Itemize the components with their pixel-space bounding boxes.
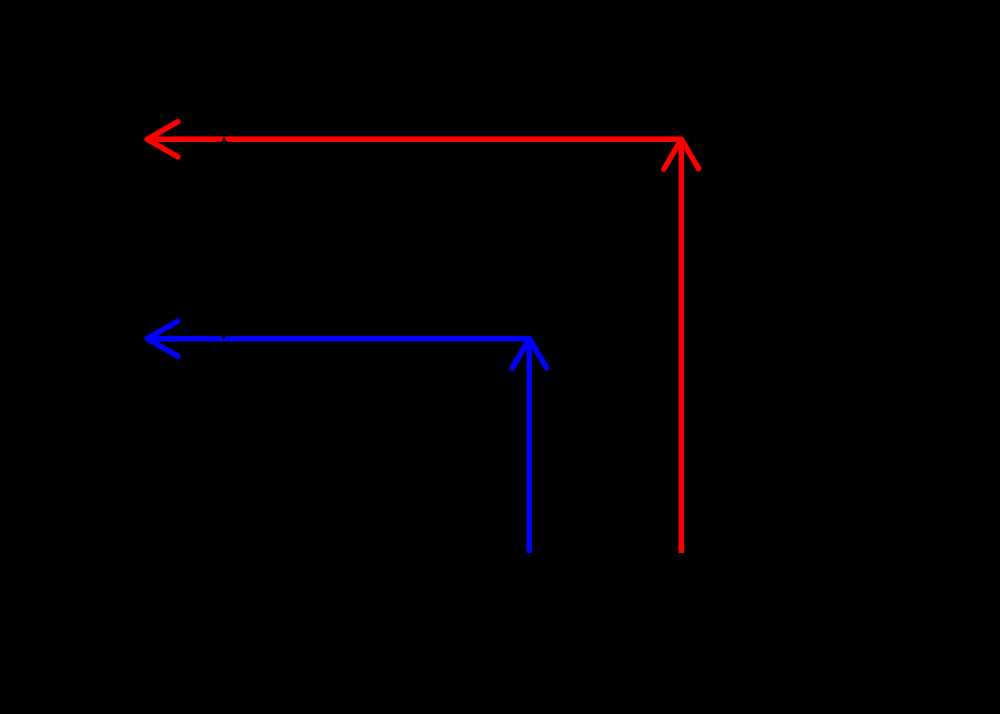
node blue left arrowhead: [147, 321, 178, 356]
wire red horizontal shaft: [150, 136, 681, 142]
wire blue horizontal shaft: [150, 336, 529, 342]
node A black glyph apex over red line: [221, 137, 228, 143]
node red left arrowhead: [147, 122, 178, 157]
node red up arrowhead: [664, 139, 699, 169]
node v black glyph tip over blue line: [221, 336, 226, 340]
wire red vertical shaft: [679, 139, 685, 553]
node blue up arrowhead: [512, 339, 546, 369]
wire blue vertical shaft: [527, 339, 533, 553]
